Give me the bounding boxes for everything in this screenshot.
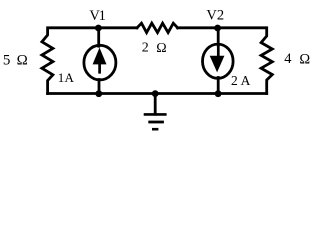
svg-text:V2: V2: [206, 8, 224, 24]
svg-text:Ω: Ω: [17, 53, 28, 69]
svg-text:V1: V1: [89, 8, 105, 24]
svg-text:2: 2: [142, 41, 149, 56]
svg-text:5: 5: [3, 52, 10, 68]
svg-text:4: 4: [284, 51, 292, 67]
svg-text:A: A: [65, 70, 75, 85]
svg-text:2: 2: [231, 73, 238, 88]
svg-text:Ω: Ω: [156, 41, 166, 56]
svg-text:A: A: [241, 73, 251, 88]
svg-text:1: 1: [58, 70, 64, 85]
svg-text:Ω: Ω: [299, 52, 310, 68]
